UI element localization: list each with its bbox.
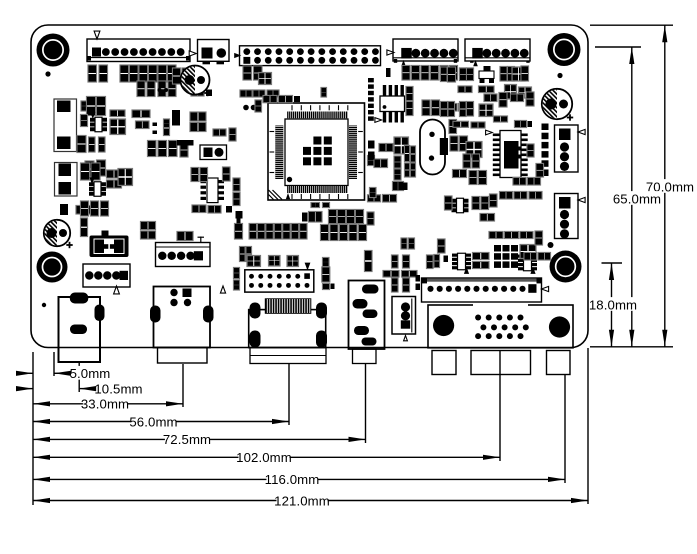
mark P163 bbox=[464, 267, 469, 274]
passive P172 bbox=[520, 232, 533, 239]
passive P1 bbox=[88, 65, 97, 82]
passive P27 bbox=[89, 137, 96, 152]
extension line board right edge bbox=[587, 348, 589, 504]
passive P152 bbox=[392, 278, 399, 292]
passive P185 bbox=[500, 192, 513, 200]
passive P219 bbox=[81, 163, 90, 180]
dimension 56.0mm bbox=[33, 414, 289, 429]
passive P194 bbox=[208, 206, 221, 214]
arrow mark left of CON4 bbox=[387, 50, 394, 55]
passive P46 bbox=[254, 66, 263, 80]
connector CON2 2-pin bbox=[198, 40, 230, 65]
pad P23 bbox=[153, 131, 158, 135]
VGA top edge gap bbox=[473, 303, 528, 307]
mounting hole bottom-left bbox=[37, 252, 68, 283]
passive P136 bbox=[368, 195, 381, 202]
dimension 18.0mm line bbox=[602, 263, 623, 347]
passive P30 bbox=[97, 160, 106, 176]
pad P212 bbox=[368, 141, 375, 149]
passive P138 bbox=[323, 258, 330, 267]
passive P214 bbox=[370, 188, 377, 198]
passive P99 bbox=[469, 171, 477, 185]
IC U1 QFP-128 main controller bbox=[268, 103, 365, 200]
passive P55 bbox=[279, 96, 293, 103]
pad column bbox=[542, 124, 549, 177]
connector CON9 5-pin bbox=[156, 243, 211, 267]
passive quad P77 bbox=[512, 67, 525, 81]
passive P62 bbox=[440, 66, 448, 81]
polarity mark near CON10 bbox=[220, 286, 225, 293]
passive P187 bbox=[529, 192, 542, 200]
passive P147 bbox=[141, 222, 156, 230]
LVDS connector J3 bbox=[249, 298, 327, 363]
passive P201 bbox=[368, 156, 375, 166]
mounting hole top-left bbox=[37, 34, 70, 67]
passive P7 bbox=[158, 65, 167, 82]
passive P210 bbox=[405, 163, 410, 177]
connector CON8 5-pin bbox=[83, 264, 130, 287]
extension line board left edge bbox=[32, 352, 34, 505]
passive P124 bbox=[283, 224, 290, 240]
passive P158 bbox=[434, 255, 440, 268]
passive quad P95 bbox=[466, 142, 482, 158]
passive P102 bbox=[445, 196, 453, 210]
passive quad P200 bbox=[394, 137, 409, 154]
pad P22 bbox=[153, 123, 158, 127]
passive P203 bbox=[394, 156, 401, 168]
passive P92 bbox=[471, 122, 485, 128]
passive P226 bbox=[91, 201, 99, 216]
passive P149 bbox=[177, 232, 193, 241]
passive P191 bbox=[233, 178, 240, 191]
pad P141 bbox=[331, 284, 335, 290]
fiducial dot near top-left hole bbox=[45, 71, 50, 76]
pad P144 bbox=[60, 204, 68, 215]
pad P128 bbox=[236, 211, 243, 219]
passive P186 bbox=[514, 192, 527, 200]
passive P179 bbox=[526, 92, 534, 106]
passive P110 bbox=[309, 212, 323, 223]
passive P113 bbox=[347, 210, 355, 224]
transistor Q1 P17 bbox=[90, 112, 107, 132]
IC U2 SOIC-8 eeprom bbox=[375, 85, 405, 123]
passive P151 bbox=[383, 271, 399, 278]
passive P40 bbox=[148, 141, 157, 157]
pad P129 bbox=[237, 219, 241, 224]
electrolytic capacitor C3 bbox=[44, 220, 73, 248]
passive P116 bbox=[330, 225, 338, 241]
passive P215 bbox=[401, 238, 407, 249]
passive P73 bbox=[467, 68, 474, 81]
polarity mark CON10 bbox=[305, 263, 311, 271]
passive P220 bbox=[91, 163, 100, 180]
passive P157 bbox=[427, 255, 434, 269]
passive P112 bbox=[338, 210, 346, 224]
arrow mark CON11 bbox=[542, 286, 549, 291]
passive quad P19 bbox=[110, 119, 126, 135]
PCB board outline bbox=[31, 25, 588, 348]
passive P105 bbox=[490, 194, 498, 207]
passive P181 bbox=[527, 144, 534, 157]
fiducial dot above bottom-right hole bbox=[548, 242, 554, 248]
passive P188 bbox=[191, 168, 199, 182]
passive P78 bbox=[521, 66, 529, 81]
polarity mark CON8 bbox=[114, 286, 120, 294]
passive P106 bbox=[480, 214, 495, 222]
passive P64 bbox=[460, 68, 473, 76]
passive P131 bbox=[246, 247, 252, 262]
passive P43 bbox=[180, 143, 188, 157]
passive P137 bbox=[383, 195, 397, 203]
passive P42 bbox=[169, 141, 178, 157]
passive P150 bbox=[392, 255, 399, 268]
connector CON7 4-pin bbox=[555, 194, 579, 239]
passive P182 bbox=[536, 164, 544, 178]
mounting hole bottom-right bbox=[550, 251, 582, 283]
dimension 70.0mm line bbox=[590, 25, 673, 347]
passive P67 bbox=[443, 104, 457, 112]
inductor footprint L2 bbox=[55, 163, 78, 197]
dimension 121.0mm bbox=[33, 493, 588, 508]
connector CON11 12-pin bbox=[422, 278, 542, 302]
speaker connector CON12 bbox=[392, 297, 416, 335]
arrow mark left of CON3 bbox=[234, 53, 241, 58]
passive P20 bbox=[132, 110, 150, 118]
audio jack J4 bbox=[349, 281, 385, 364]
passive P54 bbox=[263, 96, 277, 103]
crystal Y1 bbox=[420, 120, 448, 175]
passive P94 bbox=[460, 136, 468, 151]
passive P103 bbox=[472, 197, 480, 210]
passive P48 bbox=[240, 90, 252, 97]
transistor Q4 SOT-223 P74 bbox=[479, 66, 494, 83]
connector CON4 6-pin header bbox=[393, 39, 458, 61]
passive P26 bbox=[77, 136, 86, 153]
passive P184 bbox=[513, 178, 526, 186]
arrow mark right of CON1 bbox=[189, 51, 196, 56]
mounting hole top-right bbox=[548, 33, 581, 66]
passive P183 bbox=[528, 178, 541, 186]
VGA mounting tab left bbox=[432, 351, 456, 375]
pad dot P52 bbox=[251, 105, 257, 111]
passive P204 bbox=[394, 169, 401, 180]
passive quad P81 bbox=[505, 85, 517, 100]
arrow mark CON7 bbox=[578, 197, 585, 202]
passive P68 bbox=[459, 104, 471, 112]
dimension 33.0mm bbox=[33, 396, 183, 411]
passive P60 bbox=[421, 66, 429, 81]
pad P228 bbox=[102, 231, 109, 238]
extension line 5.0mm ref bbox=[53, 352, 55, 376]
passive P199 bbox=[379, 144, 393, 152]
passive P50 bbox=[267, 90, 279, 97]
electrolytic capacitor C1 bbox=[181, 66, 211, 97]
connector CON5 6-pin header bbox=[465, 39, 530, 61]
transistor Q3 P221 bbox=[89, 177, 106, 196]
polarity mark CON4 bbox=[401, 60, 406, 66]
passive P122 bbox=[266, 224, 273, 240]
extension line jack center bbox=[78, 363, 80, 392]
passive P107 bbox=[311, 203, 320, 208]
passive P10 bbox=[147, 81, 155, 97]
fiducial dot left of power jack bbox=[42, 303, 46, 307]
svg-text:5.0mm: 5.0mm bbox=[70, 366, 111, 381]
passive P125 bbox=[291, 224, 298, 240]
passive P223 bbox=[107, 180, 122, 188]
passive P63 bbox=[450, 66, 458, 81]
passive P108 bbox=[323, 203, 330, 208]
passive P49 bbox=[253, 90, 265, 97]
capacitor C4 tantalum bbox=[90, 236, 129, 258]
passive P4 bbox=[130, 65, 139, 82]
passive P98 bbox=[453, 170, 467, 178]
label 65.0mm bbox=[613, 191, 661, 206]
pad dot P217 bbox=[158, 88, 162, 92]
passive P8 bbox=[168, 65, 177, 82]
passive P93 bbox=[450, 136, 458, 151]
svg-text:65.0mm: 65.0mm bbox=[613, 191, 661, 206]
passive P39 bbox=[229, 128, 236, 141]
passive P205 bbox=[393, 182, 404, 191]
passive P222 bbox=[107, 170, 122, 178]
passive P111 bbox=[329, 210, 337, 224]
passive P61 bbox=[431, 66, 439, 81]
passive P88 bbox=[494, 116, 508, 122]
passive P80 bbox=[479, 86, 495, 93]
pad P160 bbox=[416, 275, 421, 282]
VGA mounting tab center bbox=[471, 351, 531, 375]
polarity mark CON12 bbox=[404, 336, 408, 341]
extension line tab center bbox=[564, 375, 566, 483]
passive P53 bbox=[321, 88, 327, 98]
passive P123 bbox=[274, 224, 281, 240]
dimension 116.0mm bbox=[33, 472, 565, 487]
connector CON3 26-pin dual-row header bbox=[240, 46, 381, 66]
passive P69 bbox=[449, 120, 457, 134]
passive P57 bbox=[255, 100, 262, 112]
header pin nubs bbox=[394, 59, 530, 63]
passive P127 bbox=[235, 224, 243, 240]
VGA mounting tab right bbox=[547, 351, 571, 375]
passive P211 bbox=[411, 163, 416, 177]
pad P206 bbox=[402, 183, 408, 191]
passive P192 bbox=[233, 193, 240, 206]
connector CON13 2-pin bbox=[200, 145, 227, 160]
dimension 72.5mm bbox=[33, 432, 366, 447]
passive P178 bbox=[511, 94, 524, 102]
passive P100 bbox=[479, 171, 487, 185]
passive P79 bbox=[458, 86, 472, 93]
transistor Q2 P101 bbox=[452, 198, 469, 213]
passive P145 bbox=[76, 206, 94, 215]
passive P11 bbox=[158, 81, 166, 97]
inductor footprint L1 bbox=[54, 99, 77, 152]
extension line VGA center bbox=[499, 351, 501, 461]
passive P202 bbox=[374, 159, 388, 168]
passive P28 bbox=[99, 137, 106, 152]
via strip bbox=[368, 78, 374, 121]
pad P35 bbox=[206, 90, 212, 97]
power jack J1 bbox=[59, 293, 105, 363]
pad P109 bbox=[302, 213, 308, 222]
passive P6 bbox=[149, 65, 158, 82]
VGA connector J5 bbox=[428, 305, 573, 348]
capacitor P15 bbox=[97, 97, 106, 116]
passive P76 bbox=[508, 67, 515, 82]
passive P209 bbox=[411, 146, 416, 162]
passive P24 bbox=[164, 119, 170, 128]
passive P153 bbox=[403, 255, 410, 268]
passive P86 bbox=[467, 102, 474, 117]
passive P91 bbox=[453, 121, 469, 127]
passive P21 bbox=[136, 121, 150, 129]
passive quad P82 bbox=[519, 87, 532, 98]
passive P71 bbox=[448, 67, 456, 82]
passive P13 bbox=[81, 101, 88, 111]
polarity mark CON5 bbox=[473, 60, 478, 66]
passive P135 bbox=[365, 251, 373, 272]
passive P70 bbox=[441, 67, 448, 82]
passive P2 bbox=[99, 65, 108, 82]
passive P198 bbox=[406, 102, 413, 116]
passive P142 bbox=[234, 268, 240, 279]
passive P174 bbox=[524, 253, 537, 261]
passive P96 bbox=[463, 154, 471, 168]
pad P196 bbox=[386, 68, 391, 77]
svg-text:10.5mm: 10.5mm bbox=[94, 381, 142, 396]
mark P166 bbox=[530, 267, 535, 274]
passive P119 bbox=[359, 225, 367, 241]
passive P117 bbox=[340, 225, 348, 241]
passive P29 bbox=[85, 161, 94, 177]
passive P121 bbox=[258, 224, 265, 240]
fiducial dot near top-right hole bbox=[557, 73, 562, 78]
resistor network RN2 P165 bbox=[518, 254, 537, 271]
passive P66 bbox=[432, 100, 440, 116]
passive sq P47 bbox=[259, 73, 272, 85]
passive P37 bbox=[190, 123, 206, 132]
passive P225 bbox=[81, 201, 89, 216]
passive P85 bbox=[460, 102, 467, 117]
pad P56 bbox=[294, 96, 300, 102]
pad P159 bbox=[444, 256, 449, 263]
passive quad P134 bbox=[287, 256, 299, 267]
passive P75 bbox=[500, 67, 507, 82]
passive P36 bbox=[190, 112, 206, 121]
pad P161 bbox=[416, 284, 421, 291]
passive P5 bbox=[139, 65, 148, 82]
dimension 10.5mm bbox=[16, 381, 143, 396]
black bar P44 bbox=[177, 140, 194, 146]
connector CON1 10-pin header bbox=[87, 39, 190, 62]
extension line board bottom right bbox=[590, 346, 673, 348]
arrow mark CON6 bbox=[578, 129, 585, 134]
svg-text:56.0mm: 56.0mm bbox=[129, 414, 177, 429]
svg-text:18.0mm: 18.0mm bbox=[589, 297, 637, 312]
svg-text:72.5mm: 72.5mm bbox=[163, 432, 211, 447]
passive P89 bbox=[515, 121, 527, 128]
pad P31 bbox=[172, 110, 180, 126]
pad dot P51 bbox=[243, 105, 249, 111]
passive P104 bbox=[481, 197, 489, 210]
passive P189 bbox=[200, 168, 208, 182]
resistor network RN1 P162 bbox=[452, 253, 471, 270]
dimension 65.0mm line bbox=[595, 47, 641, 347]
pad P90 bbox=[528, 121, 533, 127]
connector CON10 14-pin dual-row bbox=[245, 270, 314, 292]
passive P193 bbox=[192, 205, 206, 213]
svg-text:102.0mm: 102.0mm bbox=[236, 450, 292, 465]
passive P58 bbox=[402, 66, 410, 81]
passive P171 bbox=[505, 232, 519, 239]
passive P207 bbox=[367, 212, 374, 225]
passive P83 bbox=[441, 102, 448, 117]
label 70.0mm bbox=[646, 179, 694, 194]
pad P213 bbox=[368, 152, 375, 160]
passive P115 bbox=[321, 225, 329, 241]
extension line HDMI center bbox=[182, 364, 184, 407]
passive P84 bbox=[448, 102, 455, 117]
passive P173 bbox=[535, 231, 543, 245]
passive P169 bbox=[473, 262, 490, 269]
passive P18 bbox=[110, 110, 125, 117]
passive P175 bbox=[538, 253, 551, 261]
passive P120 bbox=[249, 224, 256, 240]
extension line audio center bbox=[365, 364, 367, 443]
pad strip P180 bbox=[516, 147, 521, 159]
passive quad P132 bbox=[247, 256, 261, 267]
passive P190 bbox=[223, 167, 231, 181]
passive P155 bbox=[403, 278, 410, 292]
passive P65 bbox=[422, 100, 430, 116]
capacitor P14 bbox=[87, 97, 96, 116]
passive P59 bbox=[412, 66, 420, 81]
svg-text:116.0mm: 116.0mm bbox=[265, 472, 320, 487]
passive quad P167 bbox=[520, 245, 536, 259]
svg-text:33.0mm: 33.0mm bbox=[81, 397, 129, 412]
passive P126 bbox=[300, 224, 307, 240]
dimension 5.0mm bbox=[16, 366, 110, 381]
passive P170 bbox=[489, 232, 503, 239]
passive P139 bbox=[322, 267, 330, 282]
passive quad P87 bbox=[479, 104, 493, 117]
passive P146 bbox=[81, 218, 88, 237]
passive P33 bbox=[182, 68, 190, 84]
passive P9 bbox=[137, 81, 145, 97]
extension line LVDS center bbox=[288, 363, 290, 425]
passive P227 bbox=[101, 201, 109, 216]
IC U4 SOIC-8 bbox=[201, 178, 225, 203]
passive P118 bbox=[349, 225, 357, 241]
passive P130 bbox=[240, 247, 246, 262]
passive P3 bbox=[120, 65, 129, 82]
connector CON6 4-pin bbox=[555, 125, 579, 172]
passive P16 bbox=[81, 115, 88, 127]
passive P45 bbox=[243, 66, 252, 80]
passive P148 bbox=[141, 231, 156, 239]
passive P197 bbox=[406, 87, 413, 101]
passive P12 bbox=[168, 81, 176, 97]
polarity mark CON1 bbox=[94, 31, 100, 39]
IC U3 TSSOP-18 bbox=[486, 130, 528, 177]
passive grid P164 bbox=[494, 245, 518, 268]
label 18.0mm bbox=[589, 297, 637, 312]
passive P97 bbox=[472, 154, 480, 168]
passive P25 bbox=[164, 129, 170, 136]
passive P208 bbox=[405, 146, 410, 162]
passive P154 bbox=[402, 271, 418, 278]
passive P114 bbox=[356, 210, 364, 224]
